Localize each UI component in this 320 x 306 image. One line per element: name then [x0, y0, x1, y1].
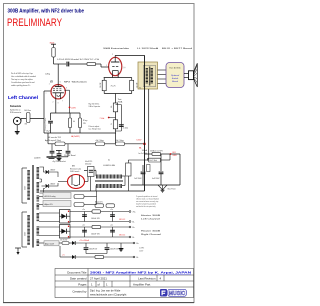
svg-text:Agn M niquin(2 Ohm): Agn M niquin(2 Ohm) — [45, 139, 61, 142]
svg-text:2W: 2W — [83, 123, 86, 125]
svg-text:Use a shielded cable if needed: Use a shielded cable if needed. — [11, 76, 37, 78]
svg-text:2x 100u: 2x 100u — [123, 128, 129, 130]
svg-text:100 Ohm: 100 Ohm — [24, 110, 32, 112]
svg-text:Pages: Pages — [78, 282, 87, 286]
svg-text:5U4G snack: 5U4G snack — [70, 171, 79, 173]
svg-text:Right Channel: Right Channel — [141, 233, 162, 236]
svg-text:2200uF 16V: 2200uF 16V — [110, 249, 118, 251]
svg-text:+Cx: +Cx — [82, 209, 85, 211]
svg-text:7: 7 — [62, 101, 63, 103]
svg-text:Adjust 5%: Adjust 5% — [45, 203, 53, 206]
svg-text:1000uF 16V: 1000uF 16V — [91, 218, 101, 220]
svg-text:3: 3 — [58, 103, 59, 105]
svg-text:LL1673: LL1673 — [34, 158, 40, 160]
svg-text:B+: B+ — [133, 227, 135, 229]
svg-text:2uF 550V: 2uF 550V — [134, 178, 142, 180]
svg-text:MUSIC: MUSIC — [169, 291, 186, 297]
svg-text:+: + — [123, 124, 124, 126]
svg-text:25-250V Board: 25-250V Board — [64, 154, 75, 157]
svg-text:Kanaende: Kanaende — [10, 106, 22, 108]
svg-text:0A (2xNF2): 0A (2xNF2) — [71, 135, 80, 138]
svg-text:0.22uF 630V Mundorf SiO 350V D: 0.22uF 630V Mundorf SiO 350V DC +Pilk — [57, 58, 99, 61]
svg-text:PRELIMINARY: PRELIMINARY — [7, 17, 62, 29]
svg-text:Date created: Date created — [70, 276, 87, 280]
svg-text:Amplifier Part: Amplifier Part — [133, 282, 151, 286]
svg-text:for 2x 2400: for 2x 2400 — [139, 152, 148, 155]
svg-text:1k5 1W: 1k5 1W — [100, 82, 102, 88]
svg-text:+Cx: +Cx — [110, 209, 113, 211]
svg-text:5L: 5L — [108, 160, 110, 162]
svg-text:B+: B+ — [137, 243, 139, 245]
svg-text:Last Revision: Last Revision — [138, 276, 156, 280]
svg-text:LL HECU+10H: LL HECU+10H — [103, 165, 116, 167]
svg-text:Concept Cable: Concept Cable — [44, 117, 47, 131]
svg-text:1N4007: 1N4007 — [50, 184, 55, 186]
svg-text:2: 2 — [53, 102, 54, 104]
svg-text:of: of — [98, 282, 101, 286]
svg-text:Left Channel: Left Channel — [141, 218, 161, 221]
svg-text:5k: 5k — [111, 123, 113, 125]
svg-text:Switch: Switch — [172, 77, 179, 80]
svg-text:RCA connector: RCA connector — [10, 111, 22, 114]
svg-text:2x NF2: 2x NF2 — [139, 248, 144, 250]
svg-text:Pin 6 of NF2 is the top Cap.: Pin 6 of NF2 is the top Cap. — [11, 72, 34, 75]
svg-text:R key: R key — [83, 120, 87, 122]
svg-text:www.lachiusde.com (C)opyr: www.lachiusde.com (C)opyright — [90, 293, 127, 297]
svg-text:Document Title: Document Title — [67, 270, 87, 274]
svg-text:75+75: 75+75 — [111, 86, 116, 88]
svg-text:Dipl. Ing. Jan van de Wide: Dipl. Ing. Jan van de Wide — [90, 289, 121, 293]
svg-text:58.5 DC: 58.5 DC — [119, 235, 126, 237]
svg-text:T1: T1 — [139, 87, 141, 89]
svg-text:220V: 220V — [71, 108, 76, 110]
svg-text:0.8 OhmW: 0.8 OhmW — [60, 240, 68, 242]
svg-text:Heater 300B: Heater 300B — [141, 214, 161, 217]
svg-text:+Gk 2 4kap: +Gk 2 4kap — [115, 140, 124, 142]
svg-text:LL 1623 90mA: LL 1623 90mA — [137, 47, 159, 50]
svg-text:4k: 4k — [73, 121, 75, 123]
svg-text:2200uF 16V: 2200uF 16V — [89, 249, 97, 251]
svg-text:NF2 Telefunken: NF2 Telefunken — [64, 82, 88, 84]
svg-text:+Cx: +Cx — [82, 225, 85, 227]
svg-text:300B Amplifier, with NF2 driv: 300B Amplifier, with NF2 driver tube — [8, 9, 85, 15]
svg-text:58.5 DC: 58.5 DC — [119, 219, 126, 221]
svg-text:1: 1 — [49, 84, 50, 86]
svg-text:8 or 16 Ohm: 8 or 16 Ohm — [169, 68, 180, 70]
svg-text:75mA: 75mA — [118, 100, 123, 103]
svg-text:EE III + EE77 Board: EE III + EE77 Board — [162, 47, 193, 50]
svg-text:Board: Board — [172, 81, 179, 83]
svg-text:300B Emissionlabo: 300B Emissionlabo — [103, 48, 130, 50]
svg-text:Adjust 5%: Adjust 5% — [95, 201, 103, 204]
svg-text:Hay 310 Ohms: Hay 310 Ohms — [89, 104, 100, 106]
svg-text:4uF 550V: 4uF 550V — [152, 178, 160, 180]
svg-text:A-100 D-relay: A-100 D-relay — [45, 195, 56, 198]
svg-text:73+: 73+ — [133, 212, 136, 214]
svg-text:1-Weg: 1-Weg — [45, 74, 50, 76]
svg-text:The top is a very thin alpha.: The top is a very thin alpha. — [11, 78, 34, 81]
svg-text:+Gk 2 4kap: +Gk 2 4kap — [95, 140, 104, 142]
svg-text:NE maschie TEX: NE maschie TEX — [48, 137, 62, 139]
svg-text:Careful when you bend it and: Careful when you bend it and — [11, 81, 34, 84]
svg-text:Created by: Created by — [72, 290, 87, 294]
svg-text:10k: 10k — [111, 105, 113, 108]
svg-text:Optional: Optional — [171, 74, 180, 77]
svg-text:300B - NF2 Amplifier NF2: 300B - NF2 Amplifier NF2 by K. Arpai, JA… — [90, 271, 191, 275]
svg-text:-7.5: -7.5 — [62, 255, 65, 257]
svg-text:Left Channel: Left Channel — [8, 95, 38, 100]
svg-text:+Cx: +Cx — [110, 225, 113, 227]
svg-text:27 April 2021: 27 April 2021 — [90, 276, 107, 280]
svg-text:450-550: 450-550 — [85, 164, 91, 166]
svg-text:2: 2 — [112, 54, 113, 56]
svg-text:solder quickly please P+.: solder quickly please P+. — [11, 85, 31, 87]
svg-text:6: 6 — [60, 81, 61, 83]
svg-text:7 Vdc: 7 Vdc — [100, 118, 105, 120]
svg-text:6.35V: 6.35V — [137, 140, 143, 142]
svg-text:1N4007: 1N4007 — [50, 170, 55, 172]
svg-text:9: 9 — [66, 87, 67, 89]
svg-text:1000uF 16V: 1000uF 16V — [91, 233, 101, 235]
svg-text:Star Point: Star Point — [168, 188, 176, 191]
svg-text:Heater 300B: Heater 300B — [141, 230, 161, 233]
